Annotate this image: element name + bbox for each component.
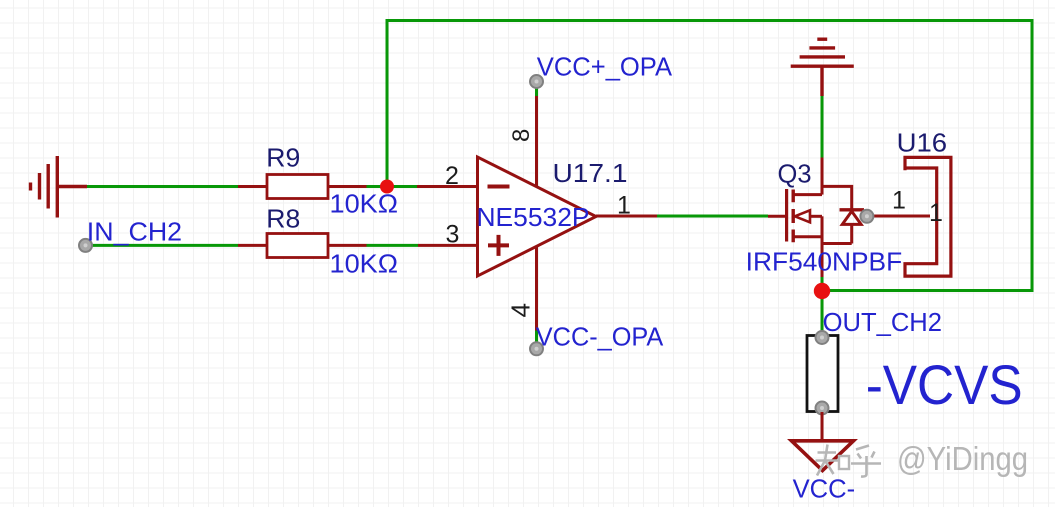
svg-text:VCC-_OPA: VCC-_OPA [536, 322, 664, 352]
body diode of Q3 [822, 186, 852, 209]
ground left [31, 156, 88, 218]
svg-text:IN_CH2: IN_CH2 [87, 217, 182, 247]
svg-text:Q3: Q3 [778, 159, 812, 189]
wire row A left (ground to R9) [87, 185, 238, 188]
watermark [816, 440, 1029, 477]
junction node A (R9/pin2/feedback) [380, 180, 394, 194]
connector U16 [860, 128, 951, 277]
svg-text:@YiDingg: @YiDingg [897, 440, 1028, 477]
svg-text:VCC+_OPA: VCC+_OPA [537, 52, 673, 82]
svg-text:U17.1: U17.1 [553, 158, 628, 188]
power port VCC+_OPA [530, 52, 673, 89]
transistor Q3 [746, 158, 903, 278]
svg-text:VCC-: VCC- [793, 474, 856, 504]
op-amp U17.1 [417, 96, 657, 331]
wire VCC- stub [535, 331, 538, 344]
svg-text:1: 1 [617, 192, 631, 220]
svg-text:IRF540NPBF: IRF540NPBF [746, 247, 903, 277]
svg-text:-VCVS: -VCVS [866, 354, 1023, 416]
wire row B right (R8 to pin3) [367, 244, 419, 247]
wire row B left (IN_CH2 to R8) [88, 244, 238, 247]
resistor R9 [238, 142, 398, 218]
svg-text:4: 4 [506, 303, 536, 317]
watermark CJK hu [851, 446, 881, 477]
resistor R8 [238, 204, 398, 279]
port IN_CH2 [79, 217, 182, 252]
wire opamp output to gate [657, 215, 768, 218]
power port VCC-_OPA [530, 322, 664, 356]
svg-text:R9: R9 [266, 142, 300, 172]
wire row A right (R9 to node) [367, 185, 418, 188]
svg-text:1: 1 [892, 187, 906, 215]
watermark CJK zhi [816, 445, 850, 476]
svg-text:OUT_CH2: OUT_CH2 [823, 307, 942, 337]
wire ground to drain [821, 96, 824, 158]
svg-text:2: 2 [445, 162, 459, 190]
svg-text:NE5532P: NE5532P [477, 202, 590, 232]
svg-text:R8: R8 [266, 204, 300, 234]
wire out node to load resistor [821, 291, 824, 331]
wire feedback loop top/right [387, 21, 1032, 291]
svg-text:1: 1 [929, 199, 943, 227]
wire resistor to VCC- [821, 412, 824, 440]
ground top right [791, 39, 854, 96]
svg-text:10KΩ: 10KΩ [330, 248, 399, 278]
junction node OUT (source/feedback/load) [814, 283, 830, 299]
wire source to out node [821, 277, 824, 291]
svg-text:U16: U16 [897, 128, 948, 158]
power port VCC- [792, 441, 856, 504]
wire VCC+ stub [535, 87, 538, 97]
svg-text:8: 8 [508, 129, 535, 142]
load resistor (vertical) [807, 331, 838, 415]
svg-text:3: 3 [446, 221, 460, 249]
